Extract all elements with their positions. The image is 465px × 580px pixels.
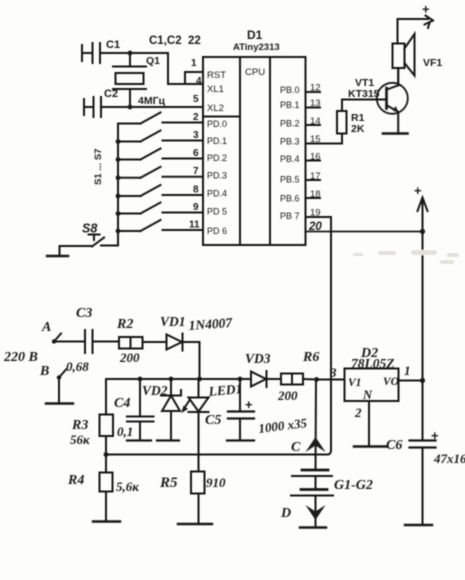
svg-text:PD.4: PD.4	[207, 189, 227, 199]
wire supply rail down to C6	[422, 232, 424, 441]
svg-text:14: 14	[310, 116, 321, 127]
ground under battery	[300, 526, 326, 528]
pin 14 stub	[306, 124, 321, 126]
svg-text:200: 200	[119, 350, 140, 365]
svg-text:S8: S8	[82, 222, 97, 236]
wire battery feed from input node	[315, 380, 318, 471]
svg-text:ATiny2313: ATiny2313	[233, 42, 280, 53]
switch S1	[118, 113, 203, 124]
ground bar under VD2	[157, 439, 179, 441]
resistor R2	[116, 317, 143, 365]
pushbutton S8	[60, 222, 119, 256]
svg-text:C6: C6	[386, 438, 402, 453]
switch S4	[116, 167, 203, 180]
node crystal top	[128, 51, 133, 56]
svg-text:+: +	[245, 397, 253, 412]
wire C3 to R2	[93, 341, 120, 343]
svg-text:G1-G2: G1-G2	[334, 478, 373, 493]
svg-text:PB.2: PB.2	[280, 119, 300, 129]
node VD1/LED junction	[197, 377, 202, 382]
svg-text:VF1: VF1	[423, 57, 442, 69]
capacitor C4	[114, 377, 154, 440]
wire pin19 down to lower rail	[306, 217, 332, 455]
zener VD2	[142, 377, 181, 440]
svg-text:R2: R2	[116, 317, 133, 332]
wire rectified rail	[106, 379, 251, 415]
ground under C6	[405, 524, 432, 526]
resistor R6	[277, 350, 319, 403]
wire RST pin1 bracket	[185, 72, 203, 84]
ground under regulator	[354, 445, 387, 447]
svg-text:+: +	[422, 2, 430, 17]
svg-text:PB.4: PB.4	[280, 154, 300, 164]
svg-text:78L05Z: 78L05Z	[351, 356, 395, 371]
regulator D2 78L05Z	[345, 346, 399, 402]
smudge artifacts	[353, 250, 459, 264]
terminal A	[41, 320, 61, 344]
pin 16 stub	[306, 160, 321, 162]
wire pin15 to R1	[306, 134, 343, 144]
switch S3	[116, 149, 203, 162]
switch S7	[116, 220, 203, 233]
svg-text:C5: C5	[205, 413, 221, 428]
svg-text:PB 7: PB 7	[280, 211, 300, 221]
svg-text:1: 1	[191, 58, 197, 69]
resistor R3	[70, 415, 113, 448]
wire node to XL1	[168, 53, 203, 84]
svg-text:2K: 2K	[351, 123, 365, 135]
node regulator input	[314, 377, 319, 382]
svg-text:C4: C4	[114, 396, 130, 411]
svg-text:56к: 56к	[70, 432, 90, 447]
svg-text:18: 18	[310, 189, 321, 200]
node C battery plug	[291, 437, 326, 455]
svg-text:PB.3: PB.3	[280, 137, 300, 147]
svg-text:A: A	[41, 320, 51, 335]
terminal B	[39, 364, 66, 380]
transistor VT1 KT315	[348, 68, 408, 133]
svg-text:C2: C2	[104, 88, 118, 100]
wire node to regulator pin3	[317, 379, 345, 381]
svg-text:200: 200	[277, 388, 298, 403]
ground under R5	[178, 523, 212, 525]
pin 12 stub	[306, 91, 321, 93]
svg-text:2: 2	[354, 405, 362, 420]
wire switch bus	[117, 124, 119, 246]
svg-text:KT315: KT315	[348, 88, 380, 100]
wire regulator output to supply rail	[399, 380, 423, 382]
svg-text:RST: RST	[207, 70, 226, 81]
pin 13 stub	[306, 107, 321, 109]
wire regulator pin2 down	[368, 401, 370, 446]
svg-text:PB.0: PB.0	[280, 85, 300, 95]
supply +V arrow	[414, 183, 428, 232]
svg-text:VO: VO	[383, 376, 399, 388]
wire C1 to crystal node	[100, 52, 168, 54]
wire speaker to supply arrow	[398, 2, 434, 44]
ground under S8	[47, 255, 68, 257]
node D battery plug	[280, 505, 326, 521]
battery G1-G2	[291, 470, 373, 527]
svg-text:R4: R4	[67, 473, 84, 488]
ground bar under C5	[227, 439, 254, 441]
MCU D1 ATiny2313	[203, 28, 306, 245]
wire R1 to base	[342, 100, 387, 112]
svg-text:CPU: CPU	[245, 67, 265, 78]
svg-text:Q1: Q1	[146, 55, 160, 67]
wire B to ground	[58, 378, 60, 404]
svg-text:V1: V1	[348, 377, 361, 389]
svg-text:16: 16	[310, 152, 321, 163]
svg-text:220 В: 220 В	[3, 350, 38, 365]
capacitor C6 electrolytic	[386, 428, 465, 525]
pin 17 stub	[306, 179, 321, 181]
diode VD1 1N4007	[160, 314, 234, 351]
wire pin20 to supply node	[306, 231, 423, 233]
resistor R4	[67, 455, 139, 522]
svg-text:9: 9	[193, 202, 199, 213]
speaker VF1	[393, 34, 443, 85]
ground under VT1	[383, 132, 408, 135]
svg-text:47х16: 47х16	[433, 451, 465, 466]
svg-text:C: C	[291, 440, 301, 455]
switch S2	[116, 131, 203, 144]
svg-text:VD2: VD2	[142, 383, 168, 398]
switch S5	[116, 185, 203, 198]
node regulator output	[420, 378, 425, 383]
wire R3 to divider node	[105, 436, 107, 455]
node supply junction	[420, 229, 425, 234]
svg-text:S1 ... S7: S1 ... S7	[93, 149, 104, 185]
svg-text:VD1: VD1	[160, 314, 186, 329]
svg-text:13: 13	[310, 98, 321, 109]
pin 18 stub	[306, 197, 321, 199]
svg-text:PD.2: PD.2	[207, 153, 227, 163]
wire C2 to XL2	[101, 106, 203, 108]
wire VD1 down to rectified rail	[183, 342, 200, 379]
svg-text:C1,C2 22: C1,C2 22	[149, 35, 201, 47]
wire lower sense rail	[106, 454, 328, 456]
svg-text:2: 2	[193, 112, 199, 123]
svg-text:PB.1: PB.1	[280, 100, 300, 110]
svg-text:1N4007: 1N4007	[188, 315, 234, 333]
svg-text:C1: C1	[106, 39, 120, 51]
svg-text:PD 6: PD 6	[207, 226, 227, 236]
svg-text:PB.5: PB.5	[280, 175, 300, 185]
svg-text:12: 12	[310, 83, 321, 94]
switch S6	[116, 203, 203, 216]
svg-text:0,1: 0,1	[117, 424, 133, 439]
capacitor C2	[84, 88, 118, 117]
svg-text:LED1: LED1	[207, 381, 243, 399]
wire R2 to VD1	[143, 341, 167, 343]
resistor R5	[159, 472, 226, 524]
svg-text:4МГц: 4МГц	[138, 95, 166, 107]
diode VD3	[245, 351, 281, 387]
capacitor C1	[82, 39, 120, 63]
svg-text:3: 3	[329, 365, 337, 380]
LED LED1	[182, 379, 243, 472]
svg-text:6: 6	[193, 148, 199, 159]
svg-text:D1: D1	[247, 28, 263, 42]
svg-text:7: 7	[193, 166, 199, 177]
ground bar under C4	[127, 439, 151, 441]
svg-text:910: 910	[206, 475, 226, 490]
svg-text:11: 11	[189, 220, 200, 231]
svg-text:N: N	[362, 388, 373, 402]
svg-text:PD.0: PD.0	[207, 119, 227, 129]
capacitor C5 electrolytic	[205, 377, 308, 440]
svg-text:17: 17	[310, 171, 321, 182]
svg-text:3: 3	[193, 130, 199, 141]
node R3/R4 divider	[104, 452, 109, 457]
ground under R4	[93, 520, 120, 522]
svg-text:1: 1	[404, 363, 411, 378]
svg-text:PD.3: PD.3	[207, 171, 227, 181]
svg-text:5: 5	[193, 94, 199, 105]
svg-text:+: +	[414, 183, 422, 198]
svg-text:XL1: XL1	[207, 84, 224, 95]
ground under B	[46, 402, 73, 404]
svg-text:C3: C3	[76, 306, 92, 321]
capacitor C3	[66, 306, 93, 374]
node crystal bottom	[128, 105, 133, 110]
svg-text:+: +	[431, 428, 439, 443]
svg-text:PD 5: PD 5	[207, 207, 227, 217]
svg-text:VD3: VD3	[245, 351, 271, 366]
svg-text:PD.1: PD.1	[207, 136, 227, 146]
svg-text:5,6к: 5,6к	[116, 479, 139, 494]
svg-text:PB.6: PB.6	[280, 194, 300, 204]
svg-text:8: 8	[193, 185, 199, 196]
wire R6 to input node	[303, 378, 317, 381]
wire A to C3	[54, 341, 84, 343]
svg-text:0,68: 0,68	[66, 359, 89, 374]
svg-text:XL2: XL2	[207, 103, 224, 114]
svg-text:B: B	[39, 364, 49, 379]
svg-text:R6: R6	[302, 350, 319, 365]
resistor R1	[337, 111, 365, 135]
crystal Q1	[113, 53, 160, 107]
svg-text:R5: R5	[159, 475, 178, 491]
svg-text:1000 х35: 1000 х35	[258, 415, 309, 436]
svg-text:D: D	[280, 506, 291, 521]
svg-text:4: 4	[196, 76, 202, 87]
svg-text:R3: R3	[71, 418, 88, 433]
